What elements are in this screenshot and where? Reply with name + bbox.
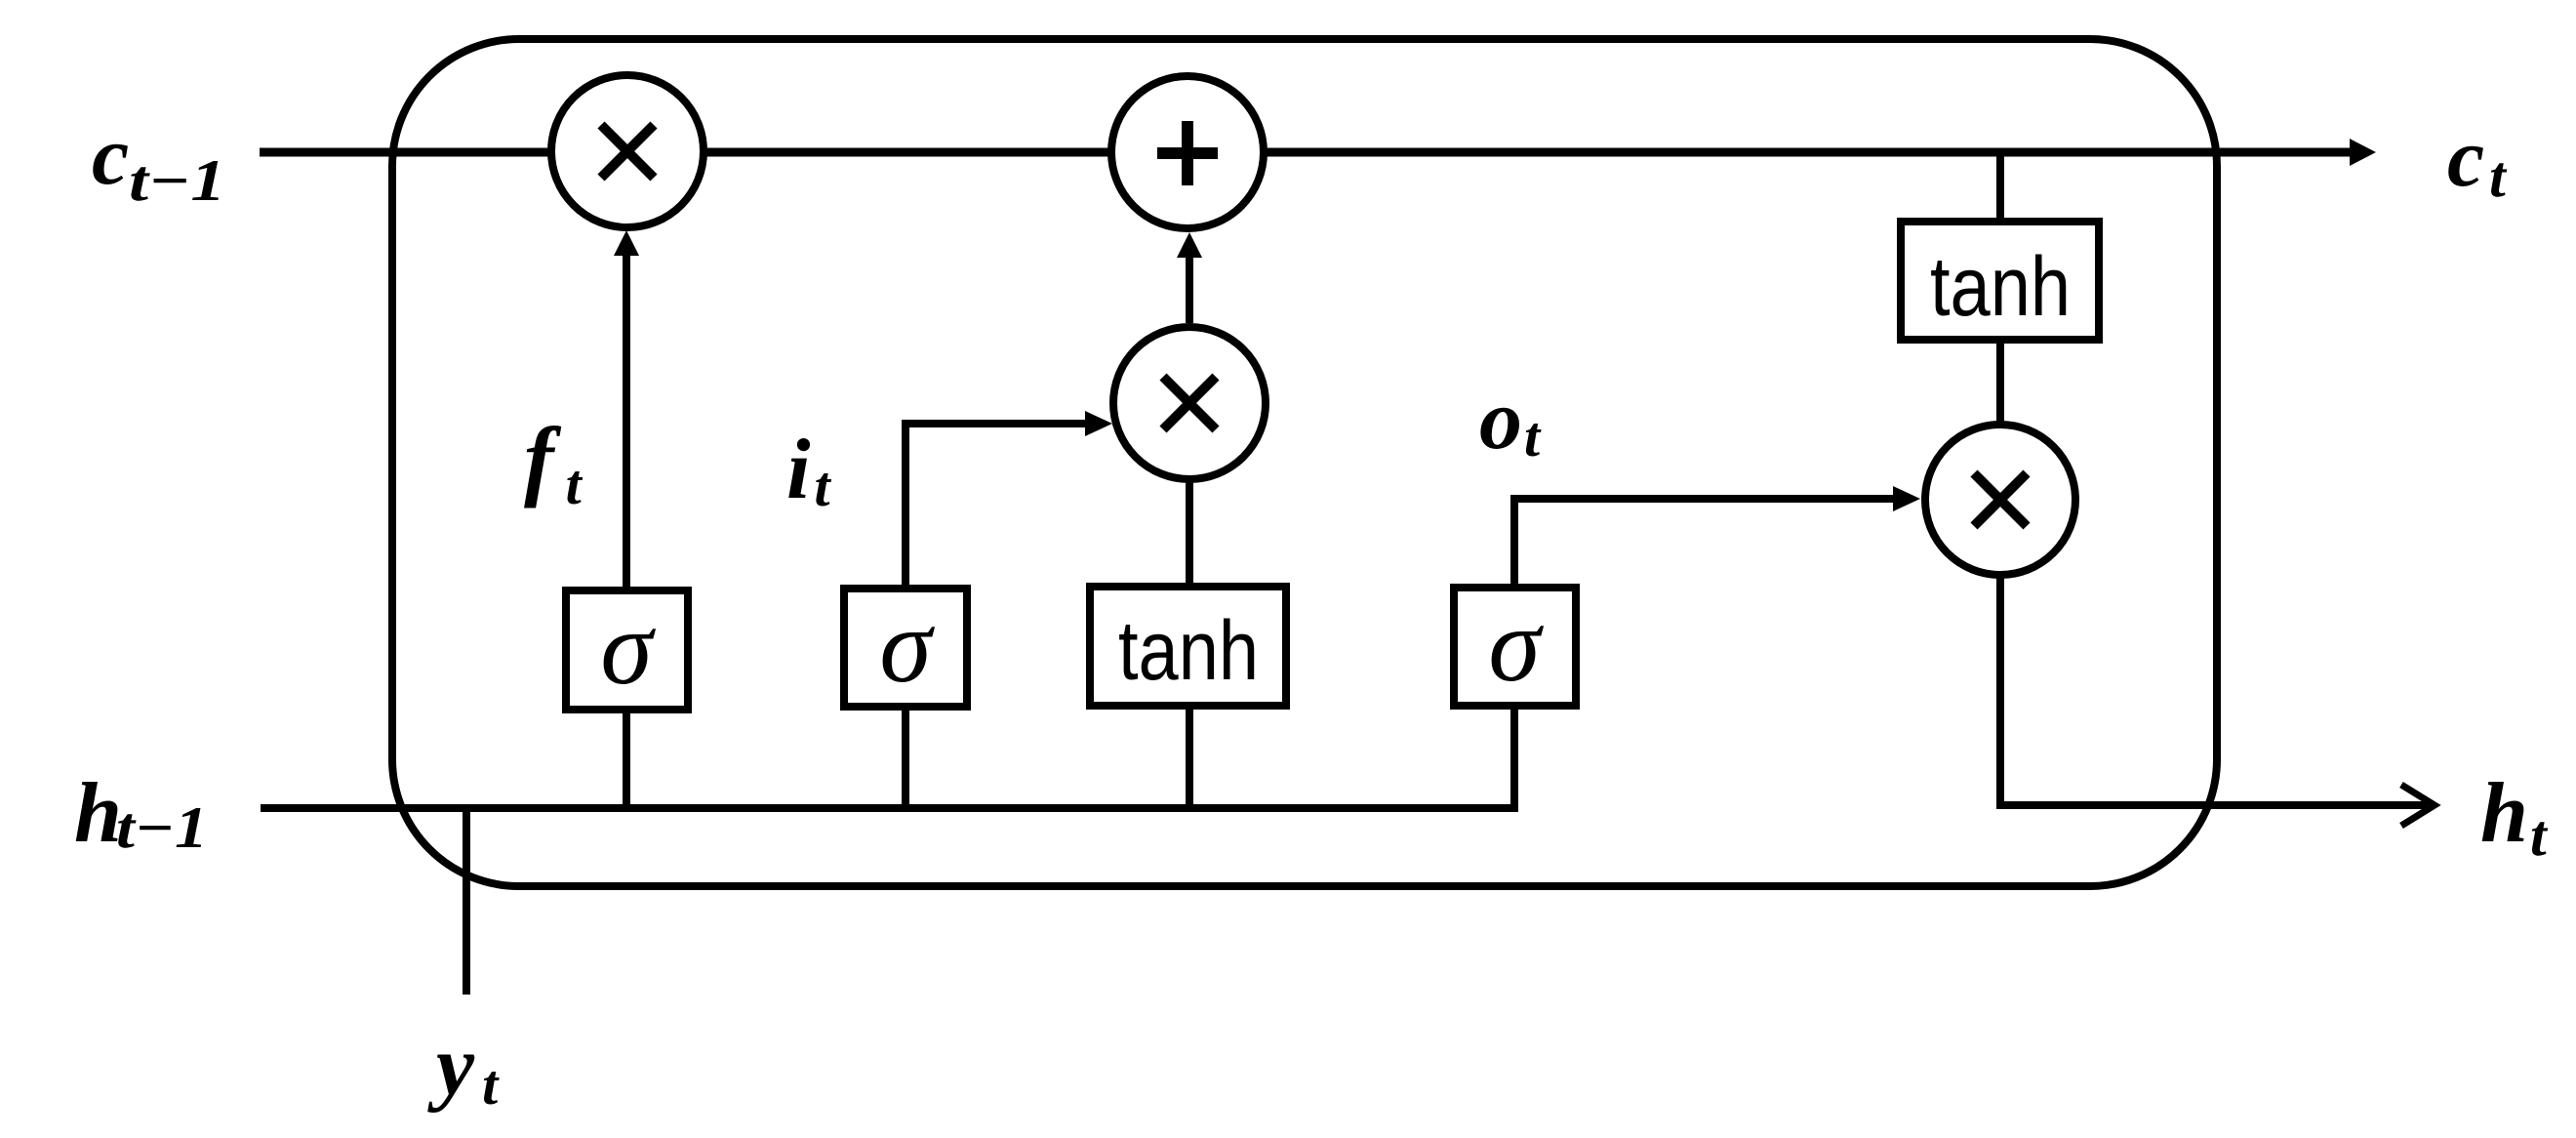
wire sigma1 down to h line	[623, 710, 630, 808]
wire y_t input drop	[463, 808, 470, 995]
wire i elbow: sigma2 up and right to M2	[906, 424, 1087, 589]
wire sigma3 down to h line	[1510, 706, 1518, 808]
wire tanh2 down to M3	[1996, 340, 2004, 426]
svg-text:tanh: tanh	[1930, 240, 2071, 334]
LSTM cell body (rounded rectangle)	[392, 39, 2217, 886]
multiplier M1 (forget gate product)	[551, 75, 704, 227]
wire sigma2 down to h line	[902, 707, 909, 808]
gate box tanh2 (cell output squash)	[1901, 222, 2099, 340]
wire c: cell-state line left-to-right	[260, 148, 2352, 157]
gate box sigma3 (output gate)	[1454, 588, 1576, 706]
arrowhead c_t (solid triangle)	[2350, 139, 2376, 166]
svg-text:σ: σ	[879, 589, 935, 705]
wire h output: M3 down then right, chevron arrowhead	[2000, 575, 2428, 805]
gate box sigma1 (forget gate)	[566, 590, 688, 710]
svg-text:σ: σ	[1488, 588, 1544, 704]
wire f arrow: sigma1 up to M1	[623, 254, 630, 590]
multiplier M3 (output gate product)	[1925, 425, 2075, 575]
multiplier M2 (input gate product)	[1113, 327, 1266, 479]
wire c line down to tanh2	[1996, 152, 2004, 222]
wire o elbow: sigma3 up and right to M3	[1514, 499, 1893, 588]
svg-text:tanh: tanh	[1118, 604, 1259, 698]
gate box sigma2 (input gate)	[844, 589, 967, 707]
wire M2 down to tanh1	[1186, 479, 1193, 587]
svg-text:σ: σ	[600, 590, 656, 707]
gate box tanh1 (candidate)	[1090, 587, 1286, 706]
wire M2 up to A1 with arrow	[1186, 256, 1193, 323]
wire h: hidden-state line (internal segment)	[261, 804, 1518, 812]
adder A1 (cell state sum)	[1111, 76, 1264, 228]
wire tanh1 down to h line	[1186, 706, 1193, 808]
